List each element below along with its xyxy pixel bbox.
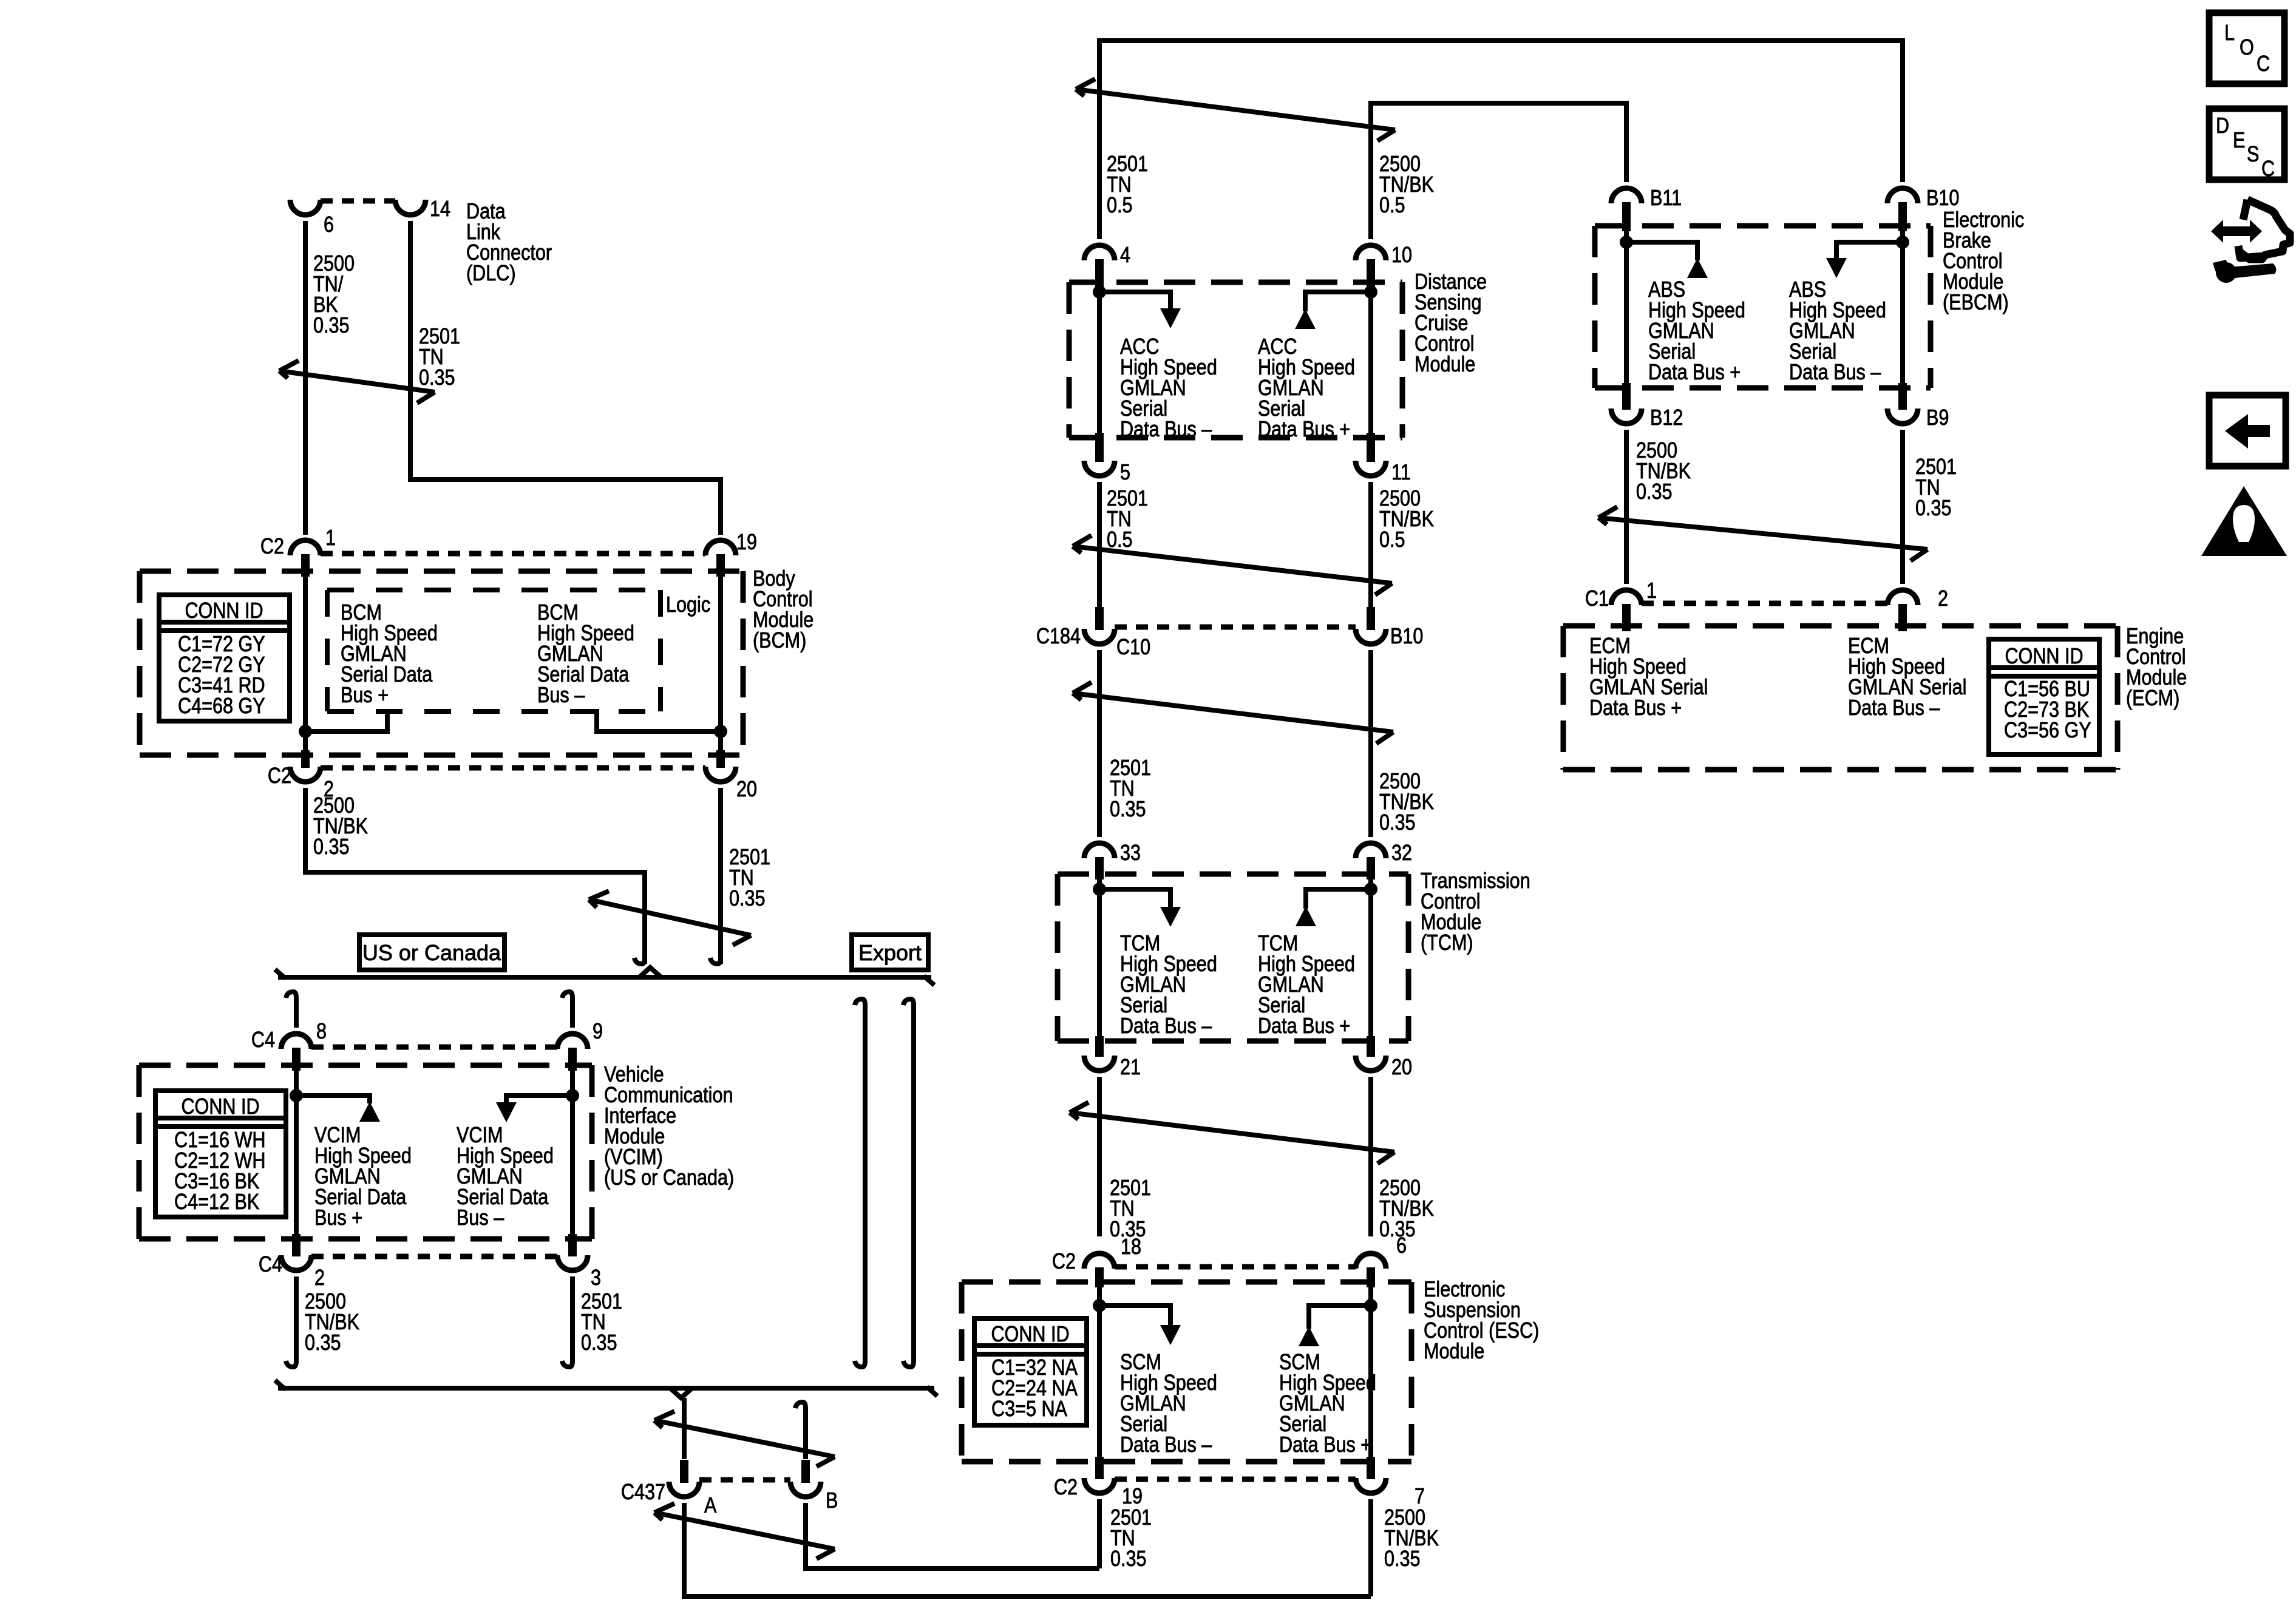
svg-text:Data Bus –: Data Bus – [1120, 1433, 1212, 1457]
svg-text:11: 11 [1391, 461, 1411, 485]
svg-text:20: 20 [736, 778, 757, 802]
connector pin B12 (EBCM) [1611, 383, 1642, 424]
junction VCIM left [290, 1089, 303, 1102]
connector C4 pin 2 (VCIM) [281, 1234, 311, 1270]
ESC internal wire left [1097, 1282, 1102, 1462]
svg-text:B: B [826, 1489, 838, 1513]
junction EBCM left [1620, 236, 1633, 249]
wire C437 A to ESC pin 7 [684, 1503, 1371, 1596]
connector C437 pin A [669, 1460, 699, 1497]
ESC internal branch Bus+ [1309, 1306, 1371, 1329]
svg-text:0.35: 0.35 [581, 1331, 617, 1355]
svg-text:14: 14 [430, 197, 450, 222]
junction VCIM right [566, 1089, 579, 1102]
VCIM conn id table [155, 1091, 286, 1217]
svg-text:2: 2 [1938, 587, 1948, 611]
connector DLC pin 14 [395, 200, 426, 215]
wire 2501 TN pin5 to C10 [1097, 482, 1102, 607]
wire 2501 TN pin21 to ESC18 [1097, 1077, 1102, 1236]
svg-text:C4=12 BK: C4=12 BK [174, 1190, 259, 1215]
crossing arrow above ESC [1070, 1102, 1394, 1164]
svg-text:Data Bus –: Data Bus – [1789, 361, 1881, 385]
svg-text:19: 19 [1122, 1485, 1143, 1509]
connector DLC pin 6 [290, 200, 321, 215]
VCIM internal branch Bus- [506, 1096, 572, 1102]
connector pin 5 (DSCC) [1084, 433, 1115, 476]
svg-text:8: 8 [316, 1020, 327, 1044]
connector pin 4 (DSCC) [1084, 245, 1115, 288]
svg-text:C10: C10 [1116, 636, 1150, 660]
svg-text:3: 3 [591, 1266, 601, 1290]
junction TCM right [1364, 883, 1377, 896]
crossing arrow above C437 [654, 1411, 835, 1466]
wire splice to C437 pin A [682, 1398, 687, 1459]
connector pin B11 (EBCM) [1611, 188, 1642, 231]
svg-text:CONN ID: CONN ID [181, 1095, 259, 1119]
svg-text:S: S [2247, 143, 2259, 167]
svg-text:L: L [2224, 21, 2235, 46]
wire 2500 TN/BK pin7 down [1368, 1499, 1373, 1596]
connector pin B10 (EBCM) [1887, 188, 1918, 231]
wire export branch 2 [903, 999, 914, 1005]
svg-text:6: 6 [324, 213, 334, 237]
wire 2500 TN/BK B12 to ECM1 [1624, 430, 1629, 584]
connector C2 pin 2 (BCM) [290, 750, 321, 782]
svg-text:C4: C4 [251, 1028, 275, 1053]
label box US or Canada [359, 935, 504, 970]
svg-text:7: 7 [1415, 1485, 1425, 1509]
svg-text:4: 4 [1120, 243, 1130, 268]
connector pin B9 (EBCM) [1887, 383, 1918, 424]
connector pin 33 (TCM) [1084, 843, 1115, 880]
crossing arrow top middle [1076, 79, 1395, 141]
wire 2500 TN/BK pin20 to ESC6 [1368, 1077, 1373, 1236]
crossing arrow below BCM [589, 891, 751, 945]
svg-text:19: 19 [736, 531, 757, 555]
junction TCM left [1093, 883, 1106, 896]
svg-text:18: 18 [1121, 1235, 1141, 1259]
crossing arrow above TCM [1073, 682, 1393, 744]
svg-text:Export: Export [858, 940, 922, 965]
svg-text:Data Bus +: Data Bus + [1589, 696, 1682, 720]
svg-text:Data Bus –: Data Bus – [1120, 1014, 1212, 1039]
BCM internal branch Bus+ [305, 709, 387, 731]
svg-text:Bus –: Bus – [537, 683, 585, 708]
svg-text:Data Bus +: Data Bus + [1258, 418, 1350, 442]
BCM conn id table [159, 595, 290, 721]
svg-text:(EBCM): (EBCM) [1943, 291, 2009, 315]
svg-text:Bus –: Bus – [457, 1206, 504, 1230]
svg-text:Bus +: Bus + [314, 1206, 362, 1230]
svg-text:6: 6 [1396, 1234, 1407, 1258]
icon LOC box [2209, 13, 2284, 84]
module VCIM box [139, 1065, 592, 1239]
splice bus bar bottom [278, 1386, 934, 1391]
wire 2500 TN/BK pin6 to BCM pin1 [303, 221, 308, 535]
connector C2 pin 19 (ESC) [1084, 1457, 1115, 1493]
svg-text:10: 10 [1391, 243, 1412, 268]
svg-text:0.35: 0.35 [1915, 497, 1952, 521]
wire export branch 1 [855, 999, 865, 1005]
svg-text:Logic: Logic [666, 593, 710, 617]
svg-text:0.5: 0.5 [1379, 528, 1405, 552]
svg-text:Module: Module [1424, 1340, 1484, 1364]
BCM internal branch Bus- [597, 709, 721, 731]
svg-text:0.5: 0.5 [1107, 194, 1133, 218]
connector C184 pin B10 [1356, 607, 1386, 644]
svg-text:0.35: 0.35 [1636, 480, 1673, 504]
svg-text:B11: B11 [1650, 186, 1682, 211]
crossing arrow below C437 [654, 1503, 835, 1559]
crossing arrow above ECM [1598, 507, 1927, 561]
TCM internal branch Bus- [1099, 889, 1170, 907]
BCM internal wire right [718, 571, 723, 755]
connector C437 pin B [790, 1460, 821, 1497]
svg-text:(US or Canada): (US or Canada) [604, 1166, 734, 1190]
svg-text:C: C [2261, 157, 2275, 181]
ECM conn id table [1989, 639, 2099, 754]
BCM pin row dashed link [321, 551, 705, 557]
svg-text:E: E [2233, 129, 2245, 153]
EBCM internal wire left [1624, 226, 1629, 388]
svg-text:Data Bus +: Data Bus + [1648, 361, 1741, 385]
connector C1 pin 1 (ECM) [1611, 590, 1642, 631]
connector pin 10 (DSCC) [1356, 245, 1386, 288]
module ECM box [1563, 626, 2118, 770]
ESC internal branch Bus- [1099, 1306, 1170, 1325]
connector pin 21 (TCM) [1084, 1036, 1115, 1071]
svg-text:0.5: 0.5 [1379, 194, 1405, 218]
svg-text:B10: B10 [1390, 625, 1423, 649]
wire 2500 TN/BK pin2 VCIM to splice [294, 1276, 299, 1361]
ESC conn id table [974, 1318, 1087, 1425]
svg-text:C2: C2 [1052, 1250, 1076, 1274]
DSCC internal wire left [1097, 282, 1102, 438]
svg-text:21: 21 [1120, 1056, 1141, 1080]
VCIM internal wire right [570, 1065, 575, 1239]
wire 2501 TN C10 to TCM33 [1097, 650, 1102, 837]
junction DSCC right [1364, 285, 1377, 299]
svg-text:(TCM): (TCM) [1421, 931, 1473, 955]
crossing arrow above C184 [1073, 535, 1392, 595]
svg-text:9: 9 [593, 1020, 603, 1044]
splice bus bar top [278, 975, 931, 980]
junction BCM left [299, 725, 312, 738]
wire 2500 TN/BK upper bus [1371, 103, 1626, 239]
wire 2501 TN pin20 to splice [718, 788, 723, 964]
connector C4 pin 8 (VCIM) [281, 1034, 311, 1071]
svg-text:0.35: 0.35 [305, 1331, 341, 1355]
svg-text:C2: C2 [268, 764, 291, 788]
wire 2500 TN/BK pin11 to B10 [1368, 482, 1373, 607]
connector pin 6 (ESC) [1356, 1253, 1386, 1287]
svg-text:0.35: 0.35 [1379, 811, 1416, 835]
svg-text:CONN ID: CONN ID [991, 1323, 1069, 1347]
connector pin 9 (VCIM) [557, 1034, 588, 1071]
BCM logic inner box [327, 590, 661, 711]
wire 2501 TN pin3 VCIM to splice [570, 1276, 575, 1361]
module EBCM box [1595, 226, 1931, 388]
ESC internal wire right [1368, 1282, 1373, 1462]
connector pin 19 (BCM) [705, 540, 736, 577]
junction ESC right [1364, 1299, 1377, 1312]
junction ESC left [1093, 1299, 1106, 1312]
DSCC internal branch Bus+ [1305, 292, 1371, 311]
svg-text:C184: C184 [1036, 625, 1081, 649]
svg-text:(BCM): (BCM) [753, 629, 806, 653]
EBCM internal branch Bus- [1836, 242, 1903, 258]
icon animal-wrench [2211, 200, 2290, 283]
icon warning triangle [2201, 486, 2287, 556]
svg-text:US or Canada: US or Canada [362, 940, 501, 965]
DSCC internal branch Bus- [1099, 292, 1170, 308]
svg-text:(DLC): (DLC) [466, 262, 516, 286]
svg-text:CONN ID: CONN ID [185, 599, 263, 623]
svg-text:1: 1 [1646, 579, 1657, 603]
wire 2501 TN top bus [1099, 41, 1903, 239]
wire 2501 TN pin14 to BCM pin19 [410, 221, 721, 535]
wire 2500 TN/BK B10 to TCM32 [1368, 650, 1373, 837]
svg-text:(ECM): (ECM) [2126, 686, 2179, 711]
svg-text:5: 5 [1120, 461, 1130, 485]
svg-text:32: 32 [1391, 841, 1412, 866]
svg-text:C2: C2 [1054, 1476, 1078, 1500]
crossing arrow DLC wires [279, 361, 435, 403]
svg-text:C4: C4 [259, 1253, 282, 1277]
svg-text:Data Bus +: Data Bus + [1279, 1433, 1371, 1457]
svg-text:B12: B12 [1650, 406, 1683, 430]
ECM pin row dashed link [1642, 601, 1887, 606]
connector pin 3 (VCIM) [557, 1234, 588, 1270]
ESC top pin row dashed link [1115, 1264, 1356, 1270]
TCM internal wire right [1368, 874, 1373, 1041]
C184 dashed link [1115, 625, 1356, 630]
ESC bottom pin row dashed link [1115, 1477, 1356, 1482]
DLC connector dashed link [321, 198, 395, 204]
svg-text:0.35: 0.35 [1384, 1547, 1421, 1571]
svg-text:Data Bus –: Data Bus – [1848, 696, 1940, 720]
module TCM box [1058, 874, 1408, 1041]
svg-text:0.35: 0.35 [313, 314, 350, 338]
svg-text:C1: C1 [1585, 587, 1609, 611]
svg-text:Bus +: Bus + [341, 683, 389, 708]
BCM internal wire left [303, 571, 308, 755]
connector C2 pin 1 (BCM) [290, 540, 321, 577]
connector C184 pin C10 [1084, 607, 1115, 644]
module ESC box [962, 1282, 1411, 1462]
connector pin 20 (BCM) [705, 750, 736, 782]
junction DSCC left [1093, 285, 1106, 299]
svg-text:C4=68 GY: C4=68 GY [178, 694, 265, 719]
splice chevron top bar [639, 968, 661, 977]
label box Export [852, 935, 928, 970]
svg-text:0.35: 0.35 [729, 887, 766, 911]
module BCM box [140, 571, 743, 755]
svg-text:C3=5 NA: C3=5 NA [991, 1397, 1068, 1422]
svg-text:C3=56 GY: C3=56 GY [2004, 719, 2091, 743]
BCM bottom pin row dashed link [321, 765, 705, 771]
VCIM bottom pin row dashed link [311, 1254, 557, 1259]
VCIM pin row dashed link [311, 1045, 557, 1050]
connector pin 7 (ESC) [1356, 1457, 1386, 1493]
svg-text:B10: B10 [1926, 186, 1959, 211]
svg-text:Data Bus –: Data Bus – [1120, 418, 1212, 442]
svg-text:Data Bus +: Data Bus + [1258, 1014, 1350, 1039]
svg-text:33: 33 [1120, 841, 1141, 866]
junction EBCM right [1896, 236, 1909, 249]
wire branch to VCIM pin 8 [286, 992, 296, 998]
C437 dashed link [699, 1477, 790, 1483]
module DSCC box [1069, 282, 1402, 438]
svg-text:C437: C437 [621, 1480, 665, 1505]
EBCM internal wire right [1900, 226, 1905, 388]
svg-text:0.35: 0.35 [313, 835, 350, 859]
svg-text:B9: B9 [1926, 406, 1949, 430]
wire 2500 TN/BK pin2 to splice [305, 788, 645, 964]
svg-text:A: A [704, 1494, 717, 1518]
icon DESC box [2209, 109, 2284, 181]
svg-text:0.35: 0.35 [1110, 1547, 1147, 1571]
TCM internal branch Bus+ [1306, 889, 1371, 909]
splice chevron bottom bar [670, 1388, 692, 1398]
svg-text:C2: C2 [260, 535, 284, 559]
svg-text:D: D [2216, 114, 2229, 138]
connector pin 2 (ECM) [1887, 590, 1918, 631]
svg-text:0.35: 0.35 [1110, 798, 1146, 822]
svg-text:CONN ID: CONN ID [2005, 645, 2083, 669]
connector pin 11 (DSCC) [1356, 433, 1386, 476]
icon back arrow box [2209, 395, 2286, 466]
connector pin 32 (TCM) [1356, 843, 1386, 880]
svg-text:0.35: 0.35 [419, 366, 455, 390]
TCM internal wire left [1097, 874, 1102, 1041]
svg-text:20: 20 [1391, 1056, 1412, 1080]
svg-text:1: 1 [325, 526, 336, 551]
EBCM internal branch Bus+ [1626, 242, 1697, 260]
svg-text:C: C [2257, 52, 2270, 76]
svg-text:2: 2 [314, 1266, 325, 1290]
svg-text:Module: Module [1415, 353, 1475, 377]
VCIM internal branch Bus+ [296, 1096, 370, 1103]
VCIM internal wire left [294, 1065, 299, 1239]
connector C2 pin 18 (ESC) [1084, 1253, 1115, 1287]
junction BCM right [714, 725, 727, 738]
svg-text:O: O [2240, 36, 2254, 60]
wire C437 B to ESC pin 19 [806, 1503, 1099, 1568]
DSCC internal wire right [1368, 282, 1373, 438]
wire branch to VCIM pin 9 [562, 992, 572, 998]
wire 2501 TN B9 to ECM2 [1900, 430, 1905, 584]
connector pin 20 (TCM) [1356, 1036, 1386, 1071]
wire 2501 TN pin19 down [1097, 1499, 1102, 1568]
wire hook to C437 pin B [795, 1402, 806, 1408]
